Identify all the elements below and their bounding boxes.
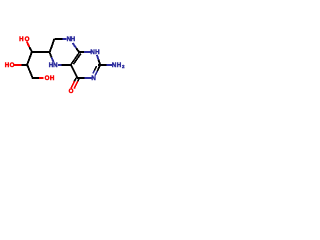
svg-text:O: O (25, 36, 30, 43)
bond N1-C2 blue half (97, 55, 99, 60)
background (0, 0, 130, 130)
bond N8-C8a black half (76, 48, 79, 53)
double bond C4=O right line black part (78, 79, 79, 82)
double bond C2=N3 main line blue half (95, 71, 97, 75)
bond C2'-C3' (27, 65, 33, 79)
svg-text:H: H (95, 49, 100, 56)
svg-text:O: O (10, 62, 15, 69)
bond C4-C4a (71, 65, 78, 79)
bond N5-C6 blue half (52, 57, 54, 62)
bond C1'-C2' (27, 52, 32, 66)
bond C2'-O2' black half (21, 64, 27, 66)
bond C8a-N1 blue half (84, 51, 91, 53)
double bond C4=O left line black part (74, 78, 76, 82)
bond C3'-O3' black half (32, 77, 39, 79)
bond C3'-O3' red half (39, 77, 43, 79)
svg-text:O: O (69, 88, 74, 95)
svg-text:H: H (50, 75, 55, 82)
bond C7-N8 black half (54, 38, 62, 40)
bond C6-C7 (50, 39, 55, 53)
bond C2-NH2 black half (98, 64, 106, 66)
double bond C8a=C4a inner line (74, 54, 81, 65)
double bond C8a=C4a main line (71, 52, 80, 65)
bond C4a-N5 black half (62, 64, 71, 66)
bond C8a-N1 black half (78, 51, 84, 53)
svg-text:H: H (19, 36, 24, 43)
bond N3-C4 black half (77, 77, 85, 79)
svg-text:N: N (91, 75, 96, 82)
bond C2-NH2 blue half (107, 64, 112, 66)
bond C7-N8 blue half (63, 38, 67, 40)
bond N8-C8a blue half (73, 43, 77, 48)
svg-text:N: N (53, 62, 58, 69)
double bond C2=N3 main line black half (97, 65, 100, 71)
double bond C2=N3 inner line blue half (93, 70, 95, 73)
bond N3-C4 blue half (84, 77, 91, 79)
bond O1'-C1' red half (27, 42, 30, 48)
bond O1'-C1' black half (29, 47, 31, 51)
double bond C4=O right line red part (74, 81, 78, 88)
bond C2'-O2' red half (14, 64, 21, 66)
double bond C2=N3 inner line black half (94, 66, 96, 70)
bond N1-C2 black half (99, 60, 101, 66)
bond C4a-N5 blue half (58, 64, 62, 66)
double bond C4=O left line red part (71, 81, 74, 88)
svg-text:H: H (71, 36, 76, 43)
bond C1'-C6 (31, 51, 50, 53)
bond N5-C6 black half (50, 52, 52, 57)
